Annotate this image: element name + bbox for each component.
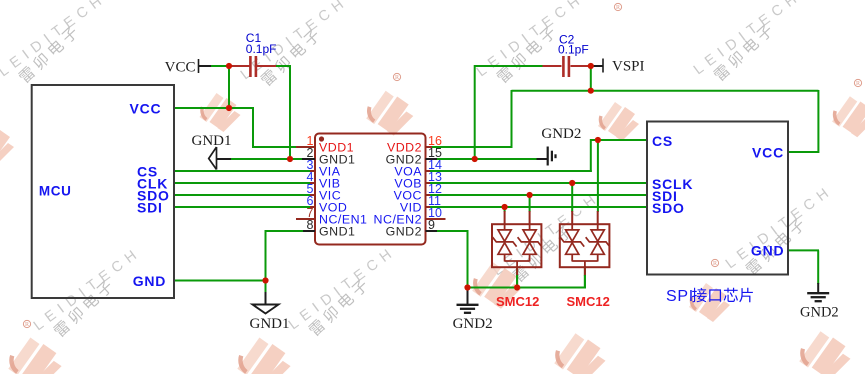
svg-text:GND1: GND1 — [319, 224, 355, 238]
svg-text:SPI: SPI — [666, 288, 694, 305]
svg-text:GND2: GND2 — [453, 316, 493, 332]
svg-text:SDO: SDO — [652, 200, 685, 216]
svg-text:R: R — [856, 81, 860, 87]
svg-text:0.1pF: 0.1pF — [246, 42, 277, 56]
svg-text:VCC: VCC — [130, 101, 162, 117]
svg-text:GND2: GND2 — [541, 126, 581, 142]
svg-text:R: R — [25, 322, 29, 328]
svg-text:R: R — [395, 75, 399, 81]
svg-text:VSPI: VSPI — [612, 59, 645, 75]
svg-text:CS: CS — [652, 133, 673, 149]
svg-text:GND: GND — [751, 242, 785, 258]
svg-text:VCC: VCC — [165, 60, 196, 76]
svg-text:GND1: GND1 — [192, 133, 232, 149]
svg-text:MCU: MCU — [39, 183, 72, 198]
svg-text:SMC12: SMC12 — [567, 294, 610, 309]
svg-text:GND: GND — [133, 273, 167, 289]
svg-text:0.1pF: 0.1pF — [558, 42, 589, 56]
svg-text:R: R — [713, 261, 717, 267]
svg-text:VCC: VCC — [752, 145, 784, 161]
svg-text:GND2: GND2 — [386, 224, 422, 238]
svg-text:R: R — [616, 5, 620, 11]
svg-text:SDI: SDI — [137, 200, 163, 216]
svg-text:9: 9 — [428, 218, 435, 232]
svg-text:SMC12: SMC12 — [496, 294, 539, 309]
svg-text:8: 8 — [307, 218, 314, 232]
svg-text:GND1: GND1 — [250, 316, 290, 332]
svg-text:GND2: GND2 — [800, 305, 839, 321]
